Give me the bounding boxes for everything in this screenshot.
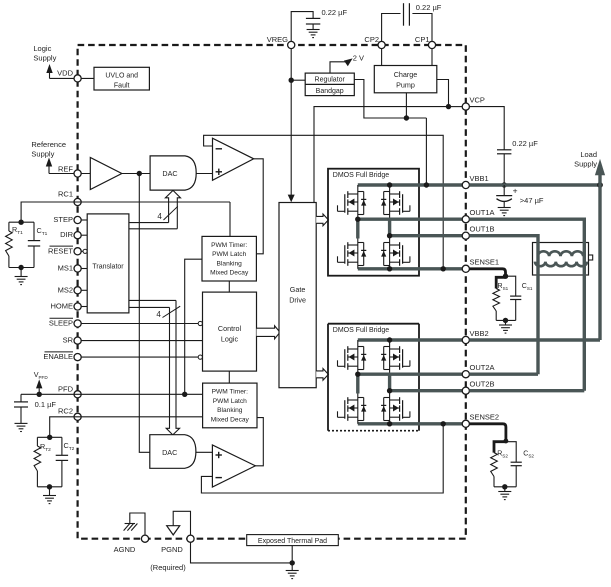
block PWM Timer 1 (202, 236, 256, 281)
svg-text:SLEEP: SLEEP (49, 319, 73, 328)
pin VCP (462, 103, 469, 110)
wire bridge2 right midpoint (388, 373, 391, 391)
svg-text:4: 4 (156, 310, 161, 319)
transistor Q4 (bridge1 low-side right) (381, 236, 410, 269)
svg-text:CP1: CP1 (415, 35, 430, 44)
svg-text:Blanking: Blanking (217, 407, 243, 414)
svg-text:Mixed Decay: Mixed Decay (210, 270, 249, 277)
wire SENSE1 rail (358, 267, 463, 270)
label OUT1A (470, 208, 495, 217)
wire bus2 lower (129, 306, 170, 308)
node load supply junction (597, 182, 603, 188)
pin OUT1A (462, 216, 469, 223)
wire ENABLE (81, 355, 202, 359)
block DMOS Full Bridge 1 (328, 169, 419, 276)
wire PGND (173, 511, 190, 535)
wire SENSE1 network bottom (496, 319, 516, 321)
label STEP (53, 215, 73, 224)
capacitor CS1 (506, 276, 522, 320)
pin SR (74, 337, 81, 344)
transistor Q3 (bridge1 low-side left) (338, 239, 367, 269)
inductor winding 1 (top coil) (538, 251, 583, 256)
block Translator (87, 214, 129, 313)
pin VBB1 (462, 181, 469, 188)
arrow reference supply (46, 158, 52, 174)
wire feed down to VBB1 (425, 118, 427, 185)
svg-text:Logic: Logic (33, 44, 51, 53)
svg-text:Supply: Supply (574, 159, 597, 168)
ground (VREG cap) (307, 30, 320, 38)
svg-text:VREG: VREG (267, 35, 288, 44)
svg-text:PGND: PGND (161, 545, 183, 554)
wire RESET (81, 249, 87, 253)
wire RT1/CT1 top rail (9, 221, 34, 223)
capacitor 0.22uF (VREG bypass) (306, 18, 320, 29)
node RT1 bottom (18, 265, 23, 270)
block DAC2 (150, 435, 196, 469)
svg-text:OUT1A: OUT1A (470, 208, 495, 217)
wire DAC1 output (196, 173, 212, 175)
label RT2 (40, 442, 51, 453)
label Reference Supply (31, 140, 66, 158)
wire charge pump bottom (405, 93, 407, 118)
label Logic Supply (33, 44, 56, 62)
resistor RS2 (491, 453, 498, 487)
wire RC1 (21, 202, 230, 236)
node VBB1 charge-pump feed junction (424, 182, 429, 187)
svg-text:OUT1B: OUT1B (470, 225, 495, 234)
wire VREG vertical trunk (290, 49, 292, 196)
svg-text:Charge: Charge (394, 70, 418, 79)
wire 2V output (330, 62, 345, 73)
block Gate Drive (279, 203, 316, 388)
label RT1 (12, 225, 23, 236)
wire VCP to gate drive (314, 107, 449, 203)
wire thermal pad to ground (291, 546, 293, 563)
wire comp2 output (255, 418, 263, 466)
label VCP (470, 95, 485, 104)
power ground symbol (PGND) (167, 526, 180, 535)
svg-text:VBB1: VBB1 (470, 174, 489, 183)
svg-text:MS1: MS1 (58, 264, 73, 273)
wire VBB1 to load supply (469, 183, 600, 186)
wire comp1 inverting input (204, 135, 444, 268)
transistor Q6 (bridge2 high-side right) (381, 340, 410, 373)
wire VBB2 rail outside (469, 338, 600, 341)
pin VBB2 (462, 336, 469, 343)
wire VCP pin link (449, 106, 463, 108)
label RESET (48, 246, 73, 255)
wire VREG to bypass capacitor (291, 12, 313, 42)
node OUT2B junction (387, 388, 392, 393)
label Load Supply (574, 150, 597, 169)
pin CP2 (378, 41, 385, 48)
label 0.1uF (35, 400, 57, 409)
svg-text:SENSE2: SENSE2 (470, 413, 500, 422)
pin OUT1B (462, 232, 469, 239)
node VCP junction (446, 104, 451, 109)
wire comp2 inverting input (201, 424, 443, 493)
wire SENSE2 thick to Rs2 (469, 424, 506, 453)
wire VBB1 rail (358, 183, 463, 186)
svg-text:VBB2: VBB2 (470, 329, 489, 338)
label RS2 (497, 451, 508, 459)
wire RT2/CT2 bottom rail (37, 486, 62, 488)
pin OUT2B (462, 387, 469, 394)
chip boundary (dashed outline of A4988 device) (78, 45, 466, 539)
svg-text:Load: Load (580, 150, 597, 159)
wire CP2 riser (382, 14, 401, 42)
wire charge pump output to VCP (437, 80, 449, 107)
svg-text:RC1: RC1 (58, 190, 73, 199)
wire bus2 upper (129, 299, 176, 301)
wire CP1 to charge pump (431, 48, 433, 65)
svg-text:0.22 µF: 0.22 µF (416, 3, 442, 12)
transistor Q8 (bridge2 low-side right) (381, 391, 410, 424)
ground (RT1/CT1) (15, 268, 28, 285)
svg-text:Gate: Gate (290, 285, 306, 294)
node REF distribution (137, 171, 142, 176)
capacitor 0.22uF (charge pump, vertical plates) (404, 3, 410, 26)
node PFD cap junction (37, 392, 42, 397)
svg-text:MS2: MS2 (58, 285, 73, 294)
ground (RS2/CS2) (498, 487, 511, 500)
block DAC1 (150, 156, 196, 190)
wire load supply riser (598, 175, 601, 186)
svg-text:VCP: VCP (470, 95, 485, 104)
svg-text:Reference: Reference (31, 140, 66, 149)
wire REF to DAC2 (139, 174, 150, 453)
wire MS2 (81, 289, 87, 291)
arrow load supply (595, 159, 605, 175)
svg-text:Exposed Thermal Pad: Exposed Thermal Pad (258, 538, 327, 545)
pin STEP (74, 216, 81, 223)
svg-text:PWM Latch: PWM Latch (212, 251, 246, 258)
label 0.22uF (CP cap) (416, 3, 442, 12)
bus arrow to DAC1 (165, 190, 180, 228)
node SENSE1 feedback tap (441, 266, 446, 271)
label bus2 width 4 (156, 306, 180, 319)
wire control logic to PWM2 (228, 371, 230, 383)
node VBB1/VCP cap junction (502, 182, 507, 187)
pin AGND (141, 535, 148, 542)
wire CP2 to charge pump (381, 48, 383, 65)
block DMOS Full Bridge 2 (328, 324, 419, 431)
wire OUT1B rail (390, 234, 463, 237)
pin ENABLE (74, 354, 81, 361)
label RS1 (498, 283, 509, 291)
svg-text:Control: Control (218, 324, 242, 333)
pin PFD (74, 391, 81, 398)
wire SLEEP (81, 321, 202, 325)
svg-text:Pump: Pump (396, 81, 415, 90)
block Charge Pump (374, 66, 437, 93)
resistor RS1 (493, 289, 500, 321)
resistor RT1 (6, 222, 13, 267)
node VBB2 top-rail junction (387, 337, 392, 342)
arrow VPFD supply (36, 379, 42, 394)
node RT1 top (18, 220, 23, 225)
wire bus1 upper (129, 222, 169, 224)
label CS2 (523, 451, 534, 459)
wire CP1 riser (412, 14, 432, 42)
wire SENSE2 rail (358, 422, 463, 425)
svg-text:OUT2A: OUT2A (470, 363, 495, 372)
node SENSE2 feedback tap (441, 421, 446, 426)
label CT1 (37, 226, 48, 237)
wire bridge1 left midpoint (356, 219, 359, 238)
svg-text:Translator: Translator (92, 263, 124, 270)
wire REF (49, 173, 90, 175)
capacitor CT2 (56, 437, 68, 487)
pin RC2 (74, 413, 81, 420)
svg-text:UVLO and: UVLO and (105, 73, 138, 80)
node SENSE2 rail junction (387, 421, 392, 426)
svg-text:SR: SR (63, 336, 74, 345)
wire DIR (81, 234, 87, 236)
svg-text:0.22 µF: 0.22 µF (512, 139, 538, 148)
label SENSE2 (470, 413, 500, 422)
node OUT2A junction (355, 372, 360, 377)
label MS1 (58, 264, 73, 273)
label MS2 (58, 285, 73, 294)
wire bus1 lower (129, 228, 177, 230)
transistor Q7 (bridge2 low-side left) (338, 394, 367, 424)
label AGND (114, 545, 136, 554)
wire OUT2B rail (390, 389, 463, 392)
node OUT1A junction (355, 217, 360, 222)
block Exposed Thermal Pad (247, 535, 339, 546)
wire OUT1A rail outside (469, 217, 584, 220)
label CS1 (522, 283, 533, 291)
svg-text:PWM Timer:: PWM Timer: (212, 389, 248, 396)
capacitor >47uF (VBB1 bulk) (496, 185, 517, 208)
ground (RS1/CS1) (499, 320, 512, 333)
label CT2 (64, 441, 75, 452)
label VREG (267, 35, 288, 44)
svg-text:DIR: DIR (60, 230, 74, 239)
wire DAC2 output (196, 451, 213, 453)
svg-text:DMOS Full Bridge: DMOS Full Bridge (333, 327, 390, 334)
svg-text:0.1 µF: 0.1 µF (35, 400, 57, 409)
svg-text:Regulator: Regulator (315, 77, 346, 84)
svg-text:DMOS Full Bridge: DMOS Full Bridge (333, 172, 390, 179)
arrow logic supply (46, 64, 52, 78)
bus arrow to DAC2 (166, 300, 179, 435)
node SENSE1 network top (503, 274, 508, 279)
node SENSE1 rail junction (387, 266, 392, 271)
wire VBB2 rail (358, 338, 463, 341)
wire OUT1B rail outside (469, 234, 538, 237)
svg-text:0.22 µF: 0.22 µF (322, 8, 348, 17)
node pad ground junction (290, 560, 295, 565)
wire regulator to VBB1 feed (354, 80, 426, 119)
node SENSE2 network top (504, 439, 509, 444)
svg-text:Supply: Supply (33, 54, 56, 63)
svg-text:4: 4 (157, 212, 162, 221)
node VBB1 top-rail junction (387, 182, 392, 187)
arrow gate drive to bridge1 (316, 214, 328, 226)
svg-text:REF: REF (58, 164, 73, 173)
svg-text:2 V: 2 V (353, 54, 364, 63)
wire STEP (81, 219, 87, 221)
label SLEEP (49, 318, 73, 327)
svg-text:STEP: STEP (53, 215, 73, 224)
node PFD branch (182, 392, 187, 397)
label PGND (161, 545, 183, 554)
svg-text:Supply: Supply (31, 150, 54, 159)
transistor Q1 (bridge1 high-side left) (338, 185, 367, 219)
label RC2 (58, 406, 73, 415)
ground (RT2/CT2) (43, 487, 56, 504)
pin SLEEP (74, 320, 81, 327)
pin SENSE1 (462, 265, 469, 272)
label VBB1 (470, 174, 489, 183)
label SR (63, 336, 74, 345)
label bus1 width 4 (157, 206, 177, 221)
arrow VREG into gate drive (288, 195, 295, 203)
label CP1 (415, 35, 430, 44)
label VDD (57, 68, 73, 77)
pin VREG (288, 41, 295, 48)
node charge-pump/regulator junction (404, 115, 409, 120)
node SENSE1 network bottom (503, 318, 508, 323)
label ENABLE (43, 352, 73, 361)
svg-text:Fault: Fault (114, 82, 130, 89)
svg-text:CP2: CP2 (364, 35, 379, 44)
arrow control logic to gate drive (257, 326, 281, 339)
block Regulator / Bandgap (305, 73, 354, 96)
label HOME (51, 302, 74, 311)
node OUT1B junction (387, 233, 392, 238)
wire bridge1 right midpoint (388, 218, 391, 236)
wire VCP to cap (469, 107, 504, 150)
wire PFD (21, 393, 203, 395)
svg-text:DAC: DAC (162, 169, 177, 178)
label (Required) (150, 563, 186, 572)
pin SENSE2 (462, 420, 469, 427)
label DIR (60, 230, 74, 239)
label SENSE1 (470, 258, 500, 267)
node RT2 top (47, 435, 52, 440)
pin VDD (74, 75, 81, 82)
wire load supply down to VBB2 (598, 185, 601, 340)
svg-text:+: + (513, 186, 518, 196)
svg-text:Mixed Decay: Mixed Decay (211, 416, 250, 423)
svg-text:OUT2B: OUT2B (470, 380, 495, 389)
node RT2 bottom (47, 484, 52, 489)
wire regulator input (291, 79, 305, 81)
pin RESET (74, 248, 81, 255)
op-amp comparator 2 (212, 445, 255, 487)
svg-text:Drive: Drive (289, 296, 306, 305)
label 0.22uF (VREG cap) (322, 8, 348, 17)
capacitor CS2 (506, 442, 522, 487)
wire OUT1A winding vertical (583, 218, 586, 391)
wire OUT1A rail (358, 217, 463, 220)
svg-text:PFD: PFD (58, 385, 74, 394)
label REF (58, 164, 73, 173)
svg-text:>47 µF: >47 µF (520, 196, 544, 205)
pin MS1 (74, 265, 81, 272)
svg-text:RESET: RESET (48, 246, 73, 255)
svg-text:Logic: Logic (221, 334, 239, 343)
wire OUT2A rail (358, 373, 463, 376)
capacitor 0.22uF (VCP) (497, 150, 511, 185)
pin RC1 (74, 198, 81, 205)
wire SENSE2 network bottom (494, 486, 516, 488)
transistor Q2 (bridge1 high-side right) (381, 185, 410, 218)
node VREG-regulator junction (289, 78, 294, 83)
ground (PFD cap) (15, 423, 28, 431)
block Control Logic (203, 292, 257, 371)
wire buffer output (122, 173, 150, 175)
label OUT1B (470, 225, 495, 234)
resistor RT2 (34, 437, 41, 487)
label 0.22uF (VCP cap) (512, 139, 538, 148)
arrow 2V supply output (344, 58, 353, 66)
wire PFD branch to PWM1 (185, 259, 202, 394)
inductor winding 2 (bottom coil) (535, 262, 587, 267)
pin MS2 (74, 287, 81, 294)
wire comp1 output (254, 159, 264, 254)
wire bridge2 left midpoint (356, 374, 359, 393)
label CP2 (364, 35, 379, 44)
label OUT2A (470, 363, 495, 372)
label RC1 (58, 190, 73, 199)
pin HOME (74, 303, 81, 310)
wire AGND (130, 513, 145, 535)
wire PGND to pad ground (191, 542, 293, 563)
svg-text:HOME: HOME (51, 302, 74, 311)
transistor Q5 (bridge2 high-side left) (338, 340, 367, 374)
wire RT2/CT2 top rail (37, 436, 62, 438)
svg-text:ENABLE: ENABLE (43, 352, 73, 361)
svg-text:AGND: AGND (114, 545, 136, 554)
wire MS1 (81, 268, 87, 270)
op-amp REF buffer (90, 158, 122, 190)
svg-text:VDD: VDD (57, 68, 73, 77)
wire OUT1B winding vertical (536, 234, 539, 374)
chassis ground (AGND) (124, 524, 138, 531)
svg-text:RC2: RC2 (58, 406, 73, 415)
label 2V (353, 54, 364, 63)
svg-text:SENSE1: SENSE1 (470, 258, 500, 267)
label VBB2 (470, 329, 489, 338)
svg-text:DAC: DAC (162, 448, 177, 457)
svg-text:(Required): (Required) (150, 563, 186, 572)
label >47uF (520, 196, 544, 205)
block UVLO and Fault (94, 67, 149, 90)
pin PGND (187, 535, 194, 542)
ground (bulk cap) (498, 208, 511, 216)
capacitor 0.1uF (PFD) (14, 394, 28, 423)
pin CP1 (428, 41, 435, 48)
pin REF (74, 170, 81, 177)
wire HOME (81, 306, 87, 308)
node SENSE2 network bottom (502, 484, 507, 489)
label OUT2B (470, 380, 495, 389)
wire OUT2A rail outside (469, 373, 538, 376)
label VPFD (34, 370, 49, 380)
label PFD (58, 385, 74, 394)
motor stepper windings box (533, 243, 593, 276)
wire OUT2B rail outside (469, 389, 584, 392)
wire SENSE1 thick to Rs1 (469, 269, 505, 289)
wire RC2 (50, 417, 203, 438)
wire RT1/CT1 bottom rail (9, 267, 34, 269)
pin DIR (74, 232, 81, 239)
